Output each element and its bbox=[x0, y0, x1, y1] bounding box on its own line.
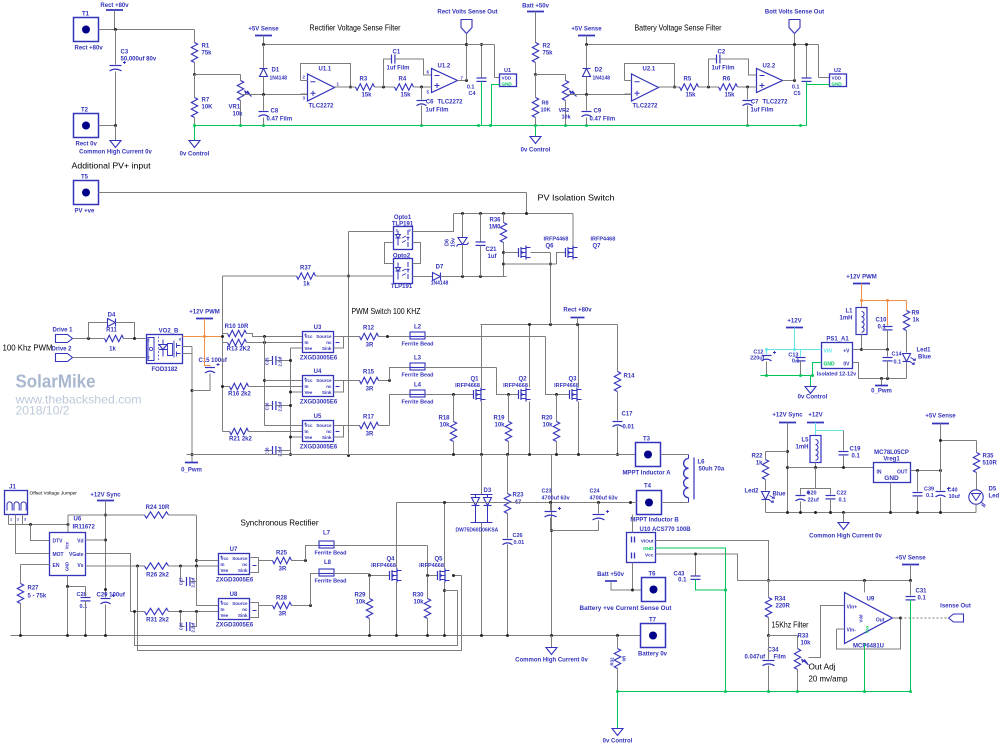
ferrite bead L7 bbox=[306, 531, 347, 561]
svg-text:R34: R34 bbox=[775, 597, 787, 603]
dual diode D3 bbox=[456, 455, 499, 636]
inductor L5 bbox=[795, 436, 821, 468]
svg-text:FOD3182: FOD3182 bbox=[151, 367, 178, 373]
svg-text:PS1_A1: PS1_A1 bbox=[826, 337, 849, 343]
wire U1.1 feedback bbox=[301, 64, 353, 89]
svg-text:R21 2k2: R21 2k2 bbox=[229, 437, 252, 443]
svg-text:Source: Source bbox=[316, 423, 332, 428]
wire orange rail bbox=[860, 299, 907, 302]
svg-text:VDD: VDD bbox=[832, 76, 842, 81]
svg-text:C17: C17 bbox=[622, 412, 634, 418]
svg-text:GND: GND bbox=[884, 475, 899, 482]
wire R5-R6 bbox=[699, 86, 719, 89]
wire r34 to pot bbox=[769, 635, 798, 637]
resistor R6 bbox=[719, 77, 738, 99]
wire vee bus bbox=[289, 348, 303, 456]
wire input U1.1 bbox=[241, 93, 308, 96]
wire opto in bbox=[349, 231, 394, 233]
svg-text:R5: R5 bbox=[684, 77, 692, 83]
resistor R36 bbox=[489, 214, 507, 277]
svg-text:10K: 10K bbox=[202, 105, 214, 111]
svg-text:10k: 10k bbox=[439, 423, 450, 429]
svg-text:Offset Voltage Jumper: Offset Voltage Jumper bbox=[30, 491, 78, 497]
inductor L1 bbox=[839, 301, 867, 350]
svg-text:PV Isolation Switch: PV Isolation Switch bbox=[538, 193, 615, 203]
svg-text:T3: T3 bbox=[643, 437, 651, 443]
diode D2 bbox=[583, 45, 611, 95]
svg-text:Vee: Vee bbox=[305, 435, 313, 440]
wire j1 to mot bbox=[16, 525, 50, 554]
svg-text:In: In bbox=[221, 562, 225, 567]
wire L3 to Q2 gate bbox=[425, 368, 519, 397]
svg-text:D1: D1 bbox=[272, 68, 280, 74]
svg-text:ZXGD3005E6: ZXGD3005E6 bbox=[300, 400, 338, 406]
svg-text:4700uf 63v: 4700uf 63v bbox=[542, 496, 571, 502]
svg-text:100 Khz PWM: 100 Khz PWM bbox=[3, 343, 53, 353]
ground bar 0_Pwm right bbox=[871, 379, 892, 395]
svg-text:IR11672: IR11672 bbox=[73, 525, 96, 531]
regulator Vreg1 bbox=[874, 450, 911, 513]
capacitor C3 bbox=[110, 30, 157, 126]
supply box U2 bbox=[807, 45, 847, 126]
resistor R34 bbox=[765, 581, 790, 638]
svg-text:L1: L1 bbox=[845, 309, 853, 315]
svg-text:IRFP4668: IRFP4668 bbox=[503, 383, 528, 389]
svg-text:1mH: 1mH bbox=[795, 445, 808, 451]
svg-text:R30: R30 bbox=[412, 593, 424, 599]
svg-text:1k: 1k bbox=[913, 318, 920, 324]
svg-text:Vcc: Vcc bbox=[221, 556, 230, 561]
svg-text:Isense Out: Isense Out bbox=[940, 604, 971, 610]
svg-text:1uf Film: 1uf Film bbox=[426, 108, 449, 114]
zener D6 bbox=[445, 214, 469, 277]
wire green control rail bottom bbox=[616, 690, 912, 693]
svg-text:3: 3 bbox=[24, 518, 26, 522]
capacitor C1 bbox=[384, 50, 432, 88]
svg-text:10k: 10k bbox=[562, 115, 572, 121]
wire u6 vs sense bbox=[86, 565, 145, 568]
svg-text:R24 10R: R24 10R bbox=[146, 505, 170, 511]
svg-text:Rect +80v: Rect +80v bbox=[563, 308, 592, 314]
svg-text:Batt +50v: Batt +50v bbox=[597, 572, 625, 578]
svg-text:nc: nc bbox=[242, 607, 248, 612]
wire 12v filtered rail bbox=[788, 466, 874, 469]
ferrite bead L8 bbox=[311, 560, 347, 606]
svg-text:3R: 3R bbox=[279, 612, 287, 618]
svg-text:Sink: Sink bbox=[238, 613, 248, 618]
svg-text:R36: R36 bbox=[489, 218, 501, 224]
svg-text:Vreg1: Vreg1 bbox=[883, 457, 900, 463]
svg-text:R1: R1 bbox=[202, 44, 210, 50]
svg-text:D7: D7 bbox=[436, 265, 444, 271]
resistor R7 bbox=[191, 75, 213, 126]
svg-text:Source: Source bbox=[232, 601, 248, 606]
svg-text:R19: R19 bbox=[493, 416, 505, 422]
diode D4 bbox=[89, 313, 135, 339]
wire u9 vss green bbox=[864, 644, 866, 692]
svg-text:VGate: VGate bbox=[69, 552, 84, 558]
wire ps1 +v out bbox=[853, 348, 890, 351]
capacitor C12 bbox=[750, 350, 776, 376]
mosfet Q6 bbox=[515, 237, 569, 260]
svg-text:U7: U7 bbox=[230, 547, 238, 553]
resistor R3 bbox=[356, 77, 375, 99]
svg-text:R9: R9 bbox=[912, 311, 920, 317]
svg-text:VR1: VR1 bbox=[229, 105, 241, 111]
svg-text:Battery 0v: Battery 0v bbox=[638, 652, 668, 658]
capacitor C23 bbox=[542, 489, 571, 531]
svg-text:2.2uf: 2.2uf bbox=[278, 356, 283, 366]
in flag Drive 1 bbox=[53, 328, 105, 343]
wire R6 to noninv bbox=[738, 86, 757, 89]
wire r35 feed bbox=[939, 439, 977, 453]
wire T3 to L6 bbox=[661, 454, 689, 456]
svg-text:R10 10R: R10 10R bbox=[225, 324, 249, 330]
svg-text:R3: R3 bbox=[360, 77, 368, 83]
svg-text:2.2uf: 2.2uf bbox=[191, 622, 196, 632]
capacitor C24 bbox=[590, 489, 619, 531]
ground Common High Current 0v bbox=[79, 126, 152, 156]
svg-text:2: 2 bbox=[17, 518, 19, 522]
svg-text:Rect +80v: Rect +80v bbox=[75, 46, 104, 52]
wire PV+ rail bbox=[99, 193, 527, 214]
svg-text:R7: R7 bbox=[202, 98, 210, 104]
svg-text:nc: nc bbox=[326, 340, 332, 345]
svg-text:Battery +ve Current Sense Out: Battery +ve Current Sense Out bbox=[580, 606, 672, 612]
svg-text:Sink: Sink bbox=[322, 390, 332, 395]
svg-text:10K: 10K bbox=[541, 108, 551, 114]
svg-text:Vcc: Vcc bbox=[65, 541, 70, 549]
led D5 bbox=[969, 487, 999, 513]
svg-text:Vs: Vs bbox=[77, 563, 83, 569]
wire u10 gnd green bbox=[656, 548, 728, 692]
svg-text:2: 2 bbox=[148, 339, 150, 343]
svg-text:C40: C40 bbox=[948, 488, 958, 494]
gate driver U4 bbox=[300, 369, 344, 406]
svg-text:Common High Current 0v: Common High Current 0v bbox=[79, 150, 152, 156]
svg-text:Ferrite Bead: Ferrite Bead bbox=[401, 373, 433, 379]
capacitor C15 bbox=[192, 337, 228, 391]
resistor R37 bbox=[223, 266, 394, 288]
capacitor C25 bbox=[265, 356, 291, 367]
svg-text:1: 1 bbox=[10, 518, 12, 522]
svg-text:C8: C8 bbox=[271, 109, 279, 115]
gate driver U7 bbox=[216, 547, 273, 584]
svg-text:T7: T7 bbox=[649, 618, 657, 624]
resistor R8 bbox=[532, 75, 550, 126]
jumper J1 bbox=[5, 485, 78, 515]
wire iso bottom rail bbox=[447, 275, 507, 278]
svg-text:15k: 15k bbox=[362, 93, 373, 99]
svg-text:0.1: 0.1 bbox=[467, 85, 475, 91]
resistor R31 bbox=[145, 608, 219, 623]
svg-text:U2: U2 bbox=[834, 68, 841, 74]
svg-text:MPPT Inductor B: MPPT Inductor B bbox=[630, 518, 679, 524]
wire green ps1 gnd bbox=[761, 363, 822, 378]
resistor R25 bbox=[273, 551, 308, 573]
svg-text:C18: C18 bbox=[265, 447, 270, 455]
watermark SolarMike bbox=[16, 371, 96, 392]
label PWM Switch 100 KHZ bbox=[352, 306, 421, 316]
svg-text:0.47 Film: 0.47 Film bbox=[590, 117, 616, 123]
svg-text:Out: Out bbox=[876, 618, 885, 624]
wire gate bus vertical bbox=[221, 276, 224, 432]
svg-text:2018/10/2: 2018/10/2 bbox=[16, 404, 70, 418]
capacitor C20 bbox=[796, 468, 819, 513]
svg-text:0.1: 0.1 bbox=[852, 454, 861, 460]
svg-text:1M0: 1M0 bbox=[489, 225, 501, 231]
op-amp U2.1 bbox=[625, 67, 659, 110]
ferrite bead L4 bbox=[390, 383, 434, 426]
svg-text:D3: D3 bbox=[484, 488, 492, 494]
svg-text:T1: T1 bbox=[82, 12, 90, 18]
svg-text:+5V Sense: +5V Sense bbox=[895, 556, 926, 562]
capacitor C6 bbox=[417, 87, 449, 126]
label Synchronous Rectifier bbox=[241, 518, 319, 528]
svg-text:Rect 0v: Rect 0v bbox=[76, 142, 98, 148]
svg-text:2.2uf: 2.2uf bbox=[191, 577, 196, 587]
mosfet Q2 bbox=[503, 325, 530, 455]
svg-text:15k: 15k bbox=[401, 93, 412, 99]
svg-text:ZXGD3005E6: ZXGD3005E6 bbox=[300, 356, 338, 362]
ground bar 0_Pwm bbox=[181, 463, 202, 474]
svg-text:Bott Volts Sense Out: Bott Volts Sense Out bbox=[765, 10, 824, 16]
svg-text:R2: R2 bbox=[543, 44, 551, 50]
svg-text:T4: T4 bbox=[644, 484, 652, 490]
controller U6 bbox=[50, 517, 96, 576]
svg-text:Vcc: Vcc bbox=[221, 601, 230, 606]
resistor R12 bbox=[344, 326, 411, 349]
wire u6 vcc pin bbox=[67, 515, 69, 533]
svg-text:R32: R32 bbox=[610, 657, 615, 666]
wire cap bank 0v bbox=[551, 530, 599, 532]
wire u9 inv bbox=[837, 618, 901, 649]
svg-text:ViOut: ViOut bbox=[641, 539, 654, 545]
wire U2.1 out bbox=[659, 86, 680, 88]
out flag Bott Volts Sense Out bbox=[765, 10, 824, 81]
mosfet Q4 bbox=[371, 503, 401, 636]
svg-text:L5: L5 bbox=[801, 438, 809, 444]
svg-text:2: 2 bbox=[396, 229, 398, 233]
svg-text:0v Control: 0v Control bbox=[180, 152, 210, 158]
svg-text:+12V: +12V bbox=[787, 319, 801, 325]
terminal T5 bbox=[74, 175, 99, 215]
capacitor C22 bbox=[816, 489, 847, 513]
power flag +5V Sense amp bbox=[895, 556, 926, 581]
wire L4 to Q1 gate bbox=[425, 393, 474, 396]
ground Common High Current mid bbox=[515, 636, 588, 664]
svg-text:+V: +V bbox=[843, 349, 850, 355]
resistor R28 bbox=[273, 596, 313, 618]
mosfet Q3 bbox=[554, 325, 581, 455]
svg-text:U5: U5 bbox=[314, 414, 322, 420]
svg-text:L2: L2 bbox=[414, 325, 422, 331]
resistor R18 bbox=[438, 395, 456, 455]
svg-text:VO2_B: VO2_B bbox=[159, 329, 179, 335]
svg-text:C7: C7 bbox=[751, 100, 759, 106]
capacitor C19 bbox=[839, 431, 862, 468]
out flag Rect Volts Sense Out bbox=[437, 10, 497, 81]
wire vreg out bbox=[911, 469, 943, 472]
wire u6 vgate bbox=[86, 554, 145, 612]
svg-text:0.01: 0.01 bbox=[514, 540, 525, 546]
svg-text:C30: C30 bbox=[179, 622, 184, 630]
svg-text:IRFP4668: IRFP4668 bbox=[419, 563, 444, 569]
svg-text:EN: EN bbox=[53, 563, 60, 569]
svg-text:+12V PWM: +12V PWM bbox=[189, 310, 220, 316]
svg-text:3R: 3R bbox=[279, 567, 287, 573]
wire +5v rail right bbox=[585, 43, 819, 46]
svg-text:MOT: MOT bbox=[53, 552, 64, 558]
wire u9 out bbox=[893, 617, 949, 620]
svg-text:0_Pwm: 0_Pwm bbox=[181, 468, 202, 474]
svg-text:IRFP4668: IRFP4668 bbox=[554, 383, 579, 389]
svg-text:0.1: 0.1 bbox=[926, 493, 934, 499]
svg-text:0_Pwm: 0_Pwm bbox=[871, 389, 892, 395]
svg-text:Ferrite Bead: Ferrite Bead bbox=[401, 400, 433, 406]
svg-text:D5: D5 bbox=[989, 487, 997, 493]
svg-text:Isolated 12-12v: Isolated 12-12v bbox=[817, 372, 857, 378]
capacitor C2 bbox=[709, 50, 757, 88]
ferrite bead L3 bbox=[390, 356, 434, 381]
svg-text:U4: U4 bbox=[314, 369, 322, 375]
capacitor C30 bbox=[179, 612, 197, 633]
svg-text:R18: R18 bbox=[438, 416, 450, 422]
svg-text:3: 3 bbox=[148, 356, 150, 360]
power flag +12V Sync right bbox=[772, 413, 803, 513]
svg-text:SolarMike: SolarMike bbox=[16, 371, 96, 392]
section title Battery Voltage Sense Filter bbox=[635, 23, 722, 33]
op-amp U1.2 bbox=[427, 64, 464, 106]
svg-text:0.1: 0.1 bbox=[792, 85, 800, 91]
wire switch node rail bbox=[187, 453, 636, 456]
svg-text:0.47 Film: 0.47 Film bbox=[267, 117, 293, 123]
svg-text:DW75D60D06KSA: DW75D60D06KSA bbox=[456, 528, 499, 534]
terminal T6 bbox=[580, 572, 672, 613]
svg-text:C6: C6 bbox=[426, 100, 434, 106]
gate driver U5 bbox=[300, 414, 344, 451]
wire T1 to R1 bbox=[99, 28, 195, 31]
svg-text:PWM Switch 100 KHZ: PWM Switch 100 KHZ bbox=[352, 306, 421, 316]
svg-text:C34: C34 bbox=[768, 648, 780, 654]
svg-text:Batt +50v: Batt +50v bbox=[522, 4, 550, 10]
wire U1.2 out bbox=[458, 79, 469, 82]
resistor R24 bbox=[68, 505, 197, 518]
capacitor C27 bbox=[179, 566, 197, 588]
svg-text:Common High Current 0v: Common High Current 0v bbox=[809, 534, 882, 540]
svg-text:R12: R12 bbox=[363, 326, 375, 332]
svg-text:Led1: Led1 bbox=[916, 348, 931, 354]
svg-text:C24: C24 bbox=[590, 489, 601, 495]
wire vcc pwm orange bbox=[183, 335, 223, 338]
trimmer VR2 bbox=[559, 75, 577, 126]
wire R4 to noninv bbox=[414, 86, 432, 89]
terminal T7 bbox=[638, 618, 668, 658]
svg-text:Led: Led bbox=[989, 494, 999, 500]
capacitor C29 bbox=[97, 593, 126, 636]
svg-text:Source: Source bbox=[232, 556, 248, 561]
gate driver U8 bbox=[216, 592, 273, 629]
gate driver U3 bbox=[300, 325, 344, 362]
svg-text:GND: GND bbox=[502, 81, 513, 86]
svg-text:R28: R28 bbox=[276, 596, 288, 602]
svg-text:L8: L8 bbox=[324, 560, 332, 566]
svg-text:L4: L4 bbox=[414, 383, 422, 389]
svg-text:R20: R20 bbox=[541, 416, 553, 422]
svg-text:L7: L7 bbox=[323, 531, 331, 537]
svg-text:R37: R37 bbox=[300, 266, 312, 272]
wire 5v amp rail bbox=[738, 579, 913, 582]
svg-text:R16 2k2: R16 2k2 bbox=[228, 392, 251, 398]
capacitor C4 bbox=[467, 43, 487, 126]
resistor R21 bbox=[223, 428, 303, 442]
wire iso top rail bbox=[454, 212, 574, 215]
wire cyan to c19 bbox=[816, 431, 844, 436]
label Additional PV+ input bbox=[72, 161, 152, 171]
terminal T1 bbox=[74, 12, 104, 52]
supply box U1 bbox=[467, 45, 517, 126]
svg-text:DTV: DTV bbox=[53, 539, 64, 545]
svg-text:R13 2K2: R13 2K2 bbox=[227, 347, 251, 353]
svg-text:0.1: 0.1 bbox=[80, 604, 88, 610]
svg-text:R23: R23 bbox=[513, 493, 525, 499]
svg-text:Battery Voltage Sense Filter: Battery Voltage Sense Filter bbox=[635, 23, 722, 33]
capacitor C26 bbox=[503, 533, 525, 636]
capacitor C10 bbox=[876, 301, 893, 350]
svg-text:Rect +80v: Rect +80v bbox=[100, 3, 129, 9]
svg-text:C22: C22 bbox=[837, 491, 847, 497]
svg-text:0V: 0V bbox=[843, 362, 850, 368]
svg-text:T2: T2 bbox=[81, 108, 89, 114]
wire T4 to L6 bbox=[662, 502, 689, 504]
opto driver VO2_B bbox=[147, 329, 183, 374]
svg-text:10k: 10k bbox=[413, 600, 424, 606]
wire hv verticals bbox=[508, 455, 554, 636]
svg-text:GND: GND bbox=[65, 562, 70, 571]
capacitor C16 bbox=[265, 401, 291, 412]
svg-text:2.2uf: 2.2uf bbox=[278, 401, 283, 411]
svg-text:+5V Sense: +5V Sense bbox=[571, 27, 602, 33]
power flag +5V Sense left bbox=[248, 27, 279, 45]
svg-text:50uh 70a: 50uh 70a bbox=[699, 467, 725, 473]
svg-text:C26: C26 bbox=[513, 533, 523, 539]
svg-text:1uf: 1uf bbox=[488, 254, 498, 260]
wire U2.2 out bbox=[783, 79, 797, 82]
svg-text:C25: C25 bbox=[265, 357, 270, 365]
svg-text:0R: 0R bbox=[622, 655, 627, 662]
svg-text:C9: C9 bbox=[594, 109, 602, 115]
svg-text:PV +ve: PV +ve bbox=[75, 209, 96, 215]
trimmer R33 bbox=[794, 634, 811, 692]
svg-text:Vd: Vd bbox=[77, 539, 83, 545]
svg-text:C31: C31 bbox=[916, 589, 928, 595]
svg-text:50,000uf 80v: 50,000uf 80v bbox=[121, 57, 157, 63]
svg-text:5 - 75k: 5 - 75k bbox=[28, 594, 47, 600]
svg-text:Q5: Q5 bbox=[434, 557, 443, 563]
wire green 0v control rail bbox=[193, 124, 807, 127]
svg-text:Led2: Led2 bbox=[744, 489, 759, 495]
svg-text:10uf: 10uf bbox=[949, 494, 960, 500]
mosfet Q1 bbox=[455, 325, 485, 455]
svg-text:In: In bbox=[221, 607, 225, 612]
svg-text:R27: R27 bbox=[28, 586, 40, 592]
wire hc 0v rail right bbox=[766, 511, 977, 514]
svg-text:R14: R14 bbox=[624, 374, 636, 380]
svg-text:Q4: Q4 bbox=[386, 557, 395, 563]
wire sense loop vs bbox=[138, 566, 462, 651]
ferrite bead L2 bbox=[401, 325, 433, 348]
svg-text:Sink: Sink bbox=[322, 346, 332, 351]
